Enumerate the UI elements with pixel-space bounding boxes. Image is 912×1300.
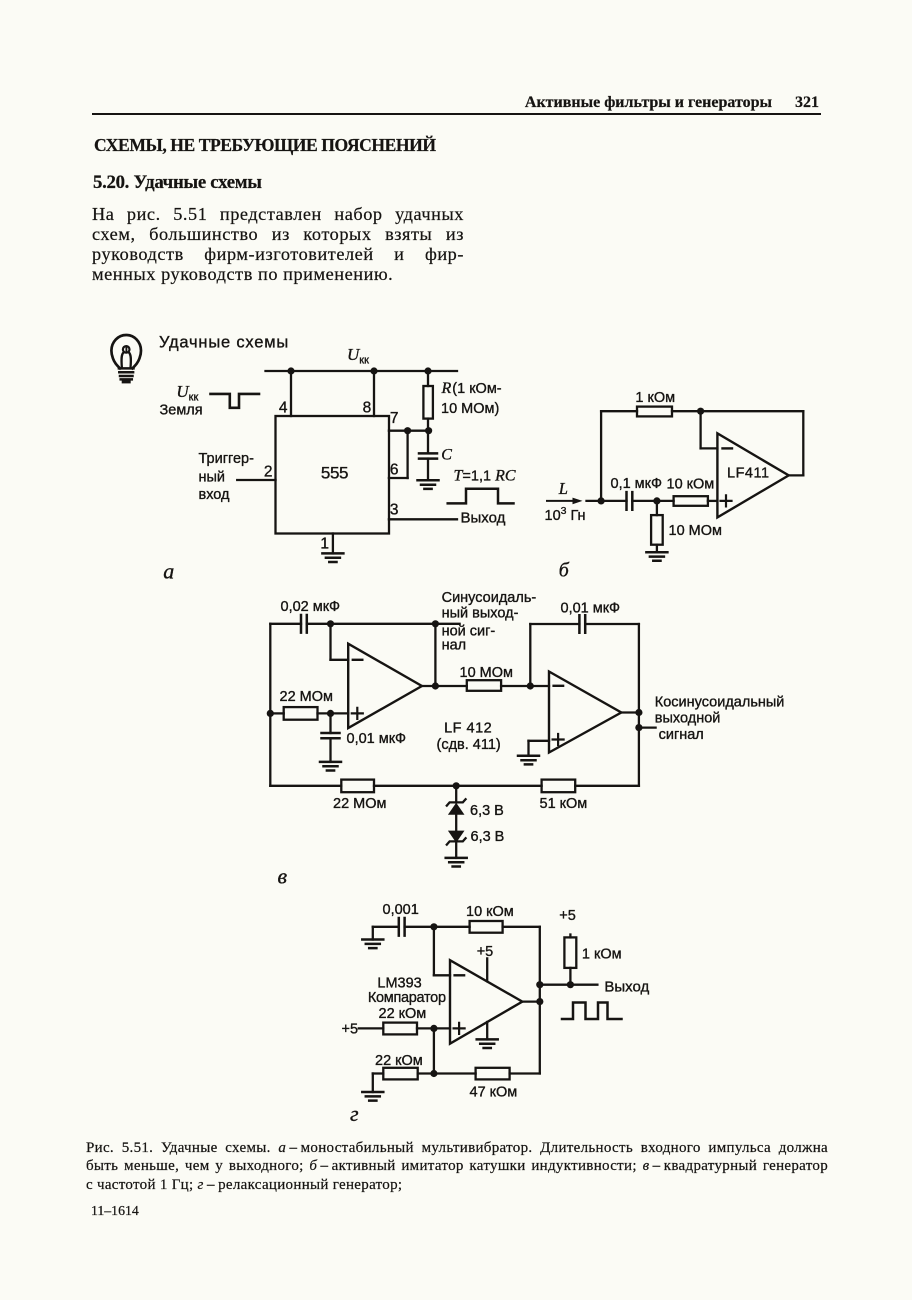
- svg-text:6,3 В: 6,3 В: [471, 829, 505, 845]
- svg-text:+5: +5: [559, 908, 576, 924]
- svg-text:0,02 мкФ: 0,02 мкФ: [281, 599, 341, 615]
- svg-text:б: б: [559, 560, 570, 582]
- svg-text:10 МОм: 10 МОм: [669, 523, 722, 539]
- svg-text:ный: ный: [199, 470, 226, 486]
- svg-text:LF 412: LF 412: [444, 721, 492, 737]
- svg-text:ный выход-: ный выход-: [442, 606, 519, 622]
- svg-text:1: 1: [320, 536, 329, 553]
- svg-text:г: г: [350, 1101, 359, 1126]
- svg-text:Удачные схемы: Удачные схемы: [159, 334, 289, 352]
- svg-text:Компаратор: Компаратор: [368, 990, 446, 1006]
- svg-text:LF411: LF411: [727, 466, 770, 482]
- svg-text:Косинусоидальный: Косинусоидальный: [655, 694, 785, 710]
- svg-text:555: 555: [321, 464, 348, 483]
- svg-text:10 МОм: 10 МОм: [460, 665, 513, 681]
- svg-text:0,001: 0,001: [383, 902, 419, 918]
- svg-text:выходной: выходной: [655, 711, 721, 727]
- svg-text:6,3 В: 6,3 В: [470, 803, 504, 819]
- svg-text:+5: +5: [342, 1022, 359, 1038]
- svg-text:вход: вход: [199, 487, 231, 503]
- svg-text:4: 4: [279, 400, 288, 417]
- svg-text:2: 2: [264, 464, 273, 481]
- svg-text:(сдв. 411): (сдв. 411): [437, 737, 501, 753]
- svg-text:10 МОм): 10 МОм): [441, 401, 499, 417]
- svg-text:22 МОм: 22 МОм: [333, 796, 386, 812]
- svg-text:нал: нал: [442, 638, 467, 654]
- svg-text:a: a: [163, 559, 174, 584]
- svg-text:51 кОм: 51 кОм: [540, 796, 588, 812]
- svg-text:7: 7: [390, 410, 399, 427]
- svg-text:47 кОм: 47 кОм: [470, 1085, 518, 1101]
- svg-text:Триггер-: Триггер-: [199, 451, 255, 467]
- svg-text:22 МОм: 22 МОм: [280, 689, 333, 705]
- svg-text:0,01 мкФ: 0,01 мкФ: [347, 731, 407, 747]
- svg-text:C: C: [441, 447, 452, 464]
- svg-text:R(1 кОм-: R(1 кОм-: [441, 380, 502, 397]
- svg-text:T=1,1 RC: T=1,1 RC: [454, 468, 516, 485]
- svg-text:Uкк: Uкк: [176, 382, 198, 404]
- svg-text:0,1 мкФ: 0,1 мкФ: [611, 476, 663, 492]
- svg-text:Uкк: Uкк: [347, 345, 369, 367]
- svg-text:Синусоидаль-: Синусоидаль-: [442, 590, 537, 606]
- svg-text:в: в: [278, 864, 288, 889]
- svg-text:8: 8: [363, 400, 372, 417]
- svg-text:Земля: Земля: [160, 403, 203, 419]
- svg-text:0,01 мкФ: 0,01 мкФ: [561, 601, 621, 617]
- svg-text:1 кОм: 1 кОм: [582, 947, 622, 963]
- svg-text:103 Гн: 103 Гн: [545, 505, 586, 524]
- svg-text:Выход: Выход: [461, 510, 506, 527]
- svg-text:22 кОм: 22 кОм: [379, 1006, 427, 1022]
- svg-text:Выход: Выход: [604, 979, 649, 996]
- svg-text:1 кОм: 1 кОм: [635, 390, 675, 406]
- svg-text:+5: +5: [477, 944, 494, 960]
- svg-text:10 кОм: 10 кОм: [466, 904, 514, 920]
- svg-text:22 кОм: 22 кОм: [375, 1053, 423, 1069]
- svg-text:6: 6: [390, 462, 399, 479]
- svg-text:сигнал: сигнал: [659, 727, 704, 743]
- svg-text:3: 3: [390, 502, 399, 519]
- svg-text:L: L: [558, 479, 568, 498]
- svg-text:10 кОм: 10 кОм: [667, 477, 715, 493]
